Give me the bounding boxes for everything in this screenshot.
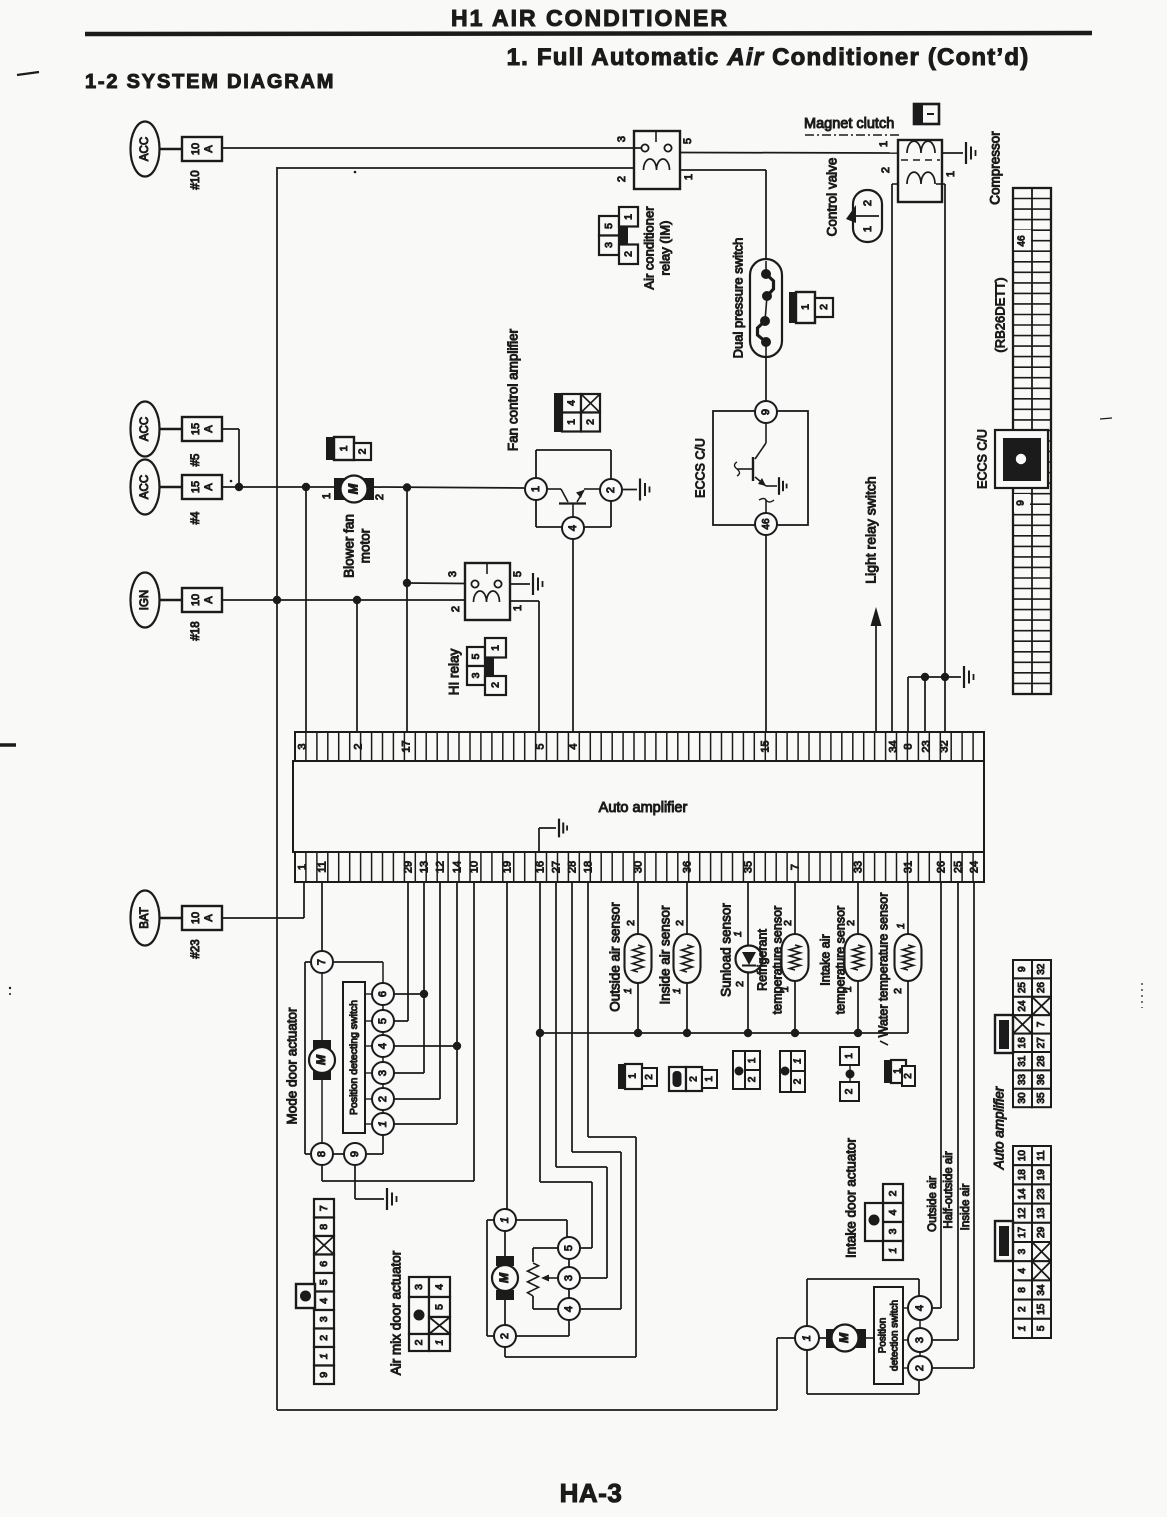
wire pin30 to outside air sensor — [637, 883, 639, 934]
svg-text:Inside air: Inside air — [960, 1184, 972, 1231]
svg-text:1: 1 — [887, 1248, 899, 1254]
svg-text:8: 8 — [318, 1224, 330, 1230]
resistor intake air temperature sensor — [845, 934, 872, 981]
connector sunload sensor — [733, 1051, 760, 1089]
svg-text:2: 2 — [793, 1078, 804, 1084]
svg-text:Auto amplifier: Auto amplifier — [599, 800, 688, 816]
svg-text:46: 46 — [761, 518, 772, 530]
motor mode door — [313, 1040, 331, 1050]
svg-text:HI relay: HI relay — [447, 648, 462, 695]
svg-text:11: 11 — [316, 861, 328, 872]
connector ECCS C/U pin grid — [1013, 188, 1051, 694]
wire AC relay coil to dual pressure switch — [680, 169, 766, 171]
label outside air sensor — [608, 902, 623, 1012]
svg-text:19: 19 — [501, 861, 513, 873]
svg-text:Dual pressure switch: Dual pressure switch — [730, 238, 745, 359]
label control valve — [825, 158, 840, 237]
motor intake door — [826, 1329, 836, 1348]
svg-text:46: 46 — [1017, 235, 1028, 247]
wire pin16 staircase — [539, 883, 541, 1182]
margin mark left lower — [9, 987, 11, 989]
svg-text:1: 1 — [878, 141, 890, 147]
svg-text:25: 25 — [1017, 982, 1028, 994]
svg-text:32: 32 — [1036, 963, 1047, 975]
svg-text:36: 36 — [1036, 1074, 1047, 1086]
svg-text:18: 18 — [1017, 1169, 1028, 1181]
svg-text:1: 1 — [622, 214, 634, 220]
motor air mix — [496, 1256, 514, 1266]
op-amp ECCS C/U box — [713, 401, 808, 535]
svg-text:2: 2 — [644, 1074, 655, 1080]
svg-text:28: 28 — [566, 861, 578, 873]
svg-text:1: 1 — [945, 171, 957, 177]
svg-text:2: 2 — [377, 1096, 389, 1102]
svg-text:temperature sensor: temperature sensor — [770, 906, 784, 1014]
svg-text:7: 7 — [789, 864, 801, 870]
wire control line to amp pin34 — [891, 184, 893, 733]
svg-text:5: 5 — [433, 1304, 445, 1310]
wire to amp pin32 — [944, 677, 946, 733]
svg-text:4: 4 — [433, 1284, 445, 1290]
svg-text:1. Full Automatic Air Conditio: 1. Full Automatic Air Conditioner (Cont’… — [507, 44, 1030, 71]
svg-text:2: 2 — [622, 251, 634, 257]
label dual pressure switch — [730, 238, 745, 359]
wire mode 9 to ground — [354, 1165, 356, 1199]
wire pin14 — [456, 883, 458, 1124]
svg-text:#23: #23 — [190, 939, 202, 958]
svg-text:1: 1 — [747, 1057, 758, 1063]
page title — [451, 5, 729, 31]
svg-text:Control valve: Control valve — [825, 158, 840, 237]
svg-text:10: 10 — [190, 912, 202, 924]
svg-text:motor: motor — [358, 528, 373, 563]
svg-text:2: 2 — [489, 682, 501, 688]
svg-text:2: 2 — [499, 1333, 511, 1339]
page number — [560, 1478, 623, 1508]
svg-text:1: 1 — [895, 923, 907, 929]
wire BAT to amp pin1 — [222, 917, 304, 919]
svg-text:2: 2 — [914, 1365, 926, 1371]
svg-text:1: 1 — [1017, 1326, 1028, 1332]
transistor Q1 ECCS — [755, 443, 766, 459]
svg-text:HA-3: HA-3 — [560, 1478, 623, 1508]
svg-text:#4: #4 — [190, 511, 202, 524]
svg-text:2: 2 — [450, 606, 462, 612]
svg-text:26: 26 — [1036, 982, 1047, 994]
svg-text:Light relay switch: Light relay switch — [863, 476, 879, 583]
svg-text:Half-outside air: Half-outside air — [943, 1151, 955, 1229]
svg-text:2: 2 — [584, 419, 596, 425]
title rule — [85, 33, 1092, 34]
svg-text:4: 4 — [567, 743, 579, 749]
wire pin27 staircase — [555, 883, 557, 1167]
svg-text:15: 15 — [190, 481, 202, 493]
motor blower fan — [321, 476, 386, 503]
wire pin13 — [423, 883, 425, 1073]
label mode door actuator — [285, 1007, 300, 1125]
svg-text:#18: #18 — [190, 621, 202, 640]
connector control valve — [846, 190, 882, 242]
svg-text:5: 5 — [603, 223, 615, 229]
label refrigerant temperature sensor — [755, 906, 784, 1014]
svg-text:3: 3 — [1017, 1248, 1028, 1254]
svg-text:2: 2 — [689, 1076, 700, 1082]
svg-text:4: 4 — [377, 1043, 389, 1049]
svg-text:Air mix door actuator: Air mix door actuator — [389, 1250, 404, 1375]
position detection switch intake — [874, 1287, 908, 1384]
svg-text:4: 4 — [563, 1306, 575, 1312]
svg-text:28: 28 — [1036, 1055, 1047, 1067]
relay HI — [447, 563, 524, 620]
wire to amp pin3 — [305, 487, 307, 733]
svg-text:33: 33 — [1017, 1074, 1028, 1086]
svg-text:1: 1 — [530, 486, 542, 492]
connector HI relay — [467, 638, 506, 695]
svg-text:2: 2 — [605, 487, 617, 493]
wire to hi relay contact — [407, 582, 465, 585]
svg-text:10: 10 — [1017, 1150, 1028, 1162]
svg-text:27: 27 — [550, 861, 562, 873]
svg-text:2: 2 — [625, 920, 637, 926]
svg-text:2: 2 — [880, 167, 892, 173]
svg-text:7: 7 — [318, 1205, 330, 1211]
label light relay switch — [863, 476, 879, 583]
resistor water temperature sensor — [895, 934, 922, 981]
svg-text:4: 4 — [887, 1209, 899, 1215]
wire sensor ground bus — [540, 1032, 908, 1034]
svg-text:14: 14 — [451, 861, 463, 873]
node fuse45 junction — [235, 483, 243, 491]
svg-text:35: 35 — [742, 861, 754, 873]
wire pin26 to intake c4 — [940, 883, 942, 1308]
wire compressor line down — [944, 184, 946, 677]
svg-text:1: 1 — [622, 988, 634, 994]
svg-text:6: 6 — [318, 1261, 330, 1267]
svg-text:2: 2 — [862, 200, 874, 206]
svg-text:3: 3 — [603, 242, 615, 248]
wire pin11 to mode actuator — [321, 883, 323, 951]
auto amplifier bottom pin row — [295, 852, 984, 882]
svg-text:1: 1 — [377, 1121, 389, 1127]
diode sunload sensor — [736, 946, 763, 973]
ground fan amp — [640, 479, 650, 501]
svg-text:IGN: IGN — [139, 590, 151, 610]
svg-text:5: 5 — [470, 653, 482, 659]
svg-text:26: 26 — [935, 861, 947, 873]
svg-text:1: 1 — [499, 1217, 511, 1223]
wire light relay switch — [875, 622, 877, 733]
node sensor bus tap — [536, 1029, 544, 1037]
svg-text:ACC: ACC — [139, 417, 151, 441]
svg-text:2: 2 — [892, 988, 904, 994]
wire pin29 — [407, 883, 409, 1021]
label ECCS C/U — [693, 438, 707, 498]
section heading — [85, 71, 335, 93]
svg-text:Compressor: Compressor — [988, 131, 1003, 205]
wire pin36 to inside air sensor — [686, 883, 688, 934]
svg-text:3: 3 — [914, 1337, 926, 1343]
wire AC relay coil to left riser — [277, 167, 634, 169]
wire bottom return — [277, 1409, 777, 1411]
connector blower — [326, 437, 371, 460]
svg-text:13: 13 — [1036, 1207, 1047, 1219]
svg-text:3: 3 — [563, 1275, 575, 1281]
svg-text:34: 34 — [1036, 1284, 1047, 1296]
svg-text:H1 AIR CONDITIONER: H1 AIR CONDITIONER — [451, 5, 729, 31]
svg-text:2: 2 — [734, 981, 746, 987]
svg-text:24: 24 — [968, 861, 980, 873]
svg-text:16: 16 — [1017, 1037, 1028, 1049]
svg-text:#5: #5 — [190, 454, 202, 467]
svg-text:1: 1 — [338, 445, 350, 451]
svg-text:A: A — [203, 483, 215, 491]
resistor air mix potentiometer — [528, 1263, 539, 1296]
node hi relay branch — [403, 579, 411, 587]
svg-text:7: 7 — [1036, 1021, 1047, 1027]
svg-text:3: 3 — [887, 1228, 899, 1234]
relay air conditioner (IM) — [616, 131, 695, 189]
svg-text:M: M — [314, 1054, 328, 1065]
wire hi relay coil to amp pin5 — [510, 600, 539, 602]
svg-text:17: 17 — [1017, 1226, 1028, 1238]
svg-text:27: 27 — [1036, 1037, 1047, 1049]
margin mark left middle — [0, 743, 16, 747]
connector AC relay — [599, 207, 638, 264]
svg-text:5: 5 — [512, 571, 524, 577]
svg-text:1: 1 — [732, 931, 744, 937]
label ECCS C/U right — [975, 429, 989, 489]
node blower junction A — [302, 483, 310, 491]
svg-text:2: 2 — [616, 176, 628, 182]
wire pin18 staircase — [587, 883, 589, 1137]
magnet clutch coils — [878, 140, 957, 202]
svg-text:ECCS C/U: ECCS C/U — [693, 438, 707, 498]
svg-text:1: 1 — [296, 864, 308, 870]
svg-text:Magnet clutch: Magnet clutch — [804, 116, 894, 132]
svg-text:ACC: ACC — [139, 475, 151, 499]
svg-text:temperature sensor: temperature sensor — [833, 906, 847, 1014]
label HI relay — [447, 648, 462, 695]
svg-text:3: 3 — [413, 1284, 425, 1290]
svg-text:1: 1 — [512, 605, 524, 611]
svg-text:3: 3 — [616, 136, 628, 142]
label outside air — [927, 1176, 939, 1232]
svg-text:ECCS C/U: ECCS C/U — [975, 429, 989, 489]
svg-text:1: 1 — [683, 174, 695, 180]
label compressor — [988, 131, 1003, 205]
svg-text:2: 2 — [844, 1088, 855, 1094]
svg-text:29: 29 — [402, 861, 414, 873]
svg-text:Outside air: Outside air — [927, 1176, 939, 1232]
svg-text:A: A — [203, 914, 215, 922]
svg-text:10: 10 — [190, 143, 202, 155]
svg-text:Blower fan: Blower fan — [342, 514, 357, 578]
svg-text:5: 5 — [377, 1018, 389, 1024]
svg-text:31: 31 — [1017, 1055, 1028, 1067]
ground right lower — [964, 666, 974, 688]
svg-text:3: 3 — [470, 672, 482, 678]
svg-text:9: 9 — [318, 1372, 330, 1378]
connector outside air sensor — [618, 1064, 657, 1089]
svg-text:M: M — [497, 1272, 511, 1283]
dual pressure switch — [750, 259, 782, 357]
wire to amp pin17 — [406, 487, 408, 733]
intake door actuator — [795, 1279, 932, 1394]
svg-text:18: 18 — [582, 861, 594, 873]
svg-text:19: 19 — [1036, 1169, 1047, 1181]
svg-text:5: 5 — [534, 743, 546, 749]
subtitle — [507, 44, 1030, 71]
svg-text:Position detecting switch: Position detecting switch — [348, 1000, 360, 1115]
transistor Q2 fan amp — [547, 488, 561, 490]
wire pin25 to intake c3 — [957, 883, 959, 1340]
svg-text:1: 1 — [321, 493, 333, 499]
wire fan amp pin2 to ground — [622, 489, 637, 491]
svg-text:Refrigerant: Refrigerant — [755, 929, 769, 991]
svg-text:5: 5 — [682, 138, 694, 144]
connector auto amplifier grid B — [995, 1146, 1051, 1338]
svg-text:15: 15 — [759, 740, 771, 752]
svg-text:Intake door actuator: Intake door actuator — [844, 1137, 859, 1258]
fuse IGN 10A #18 — [131, 573, 223, 641]
connector intake door — [865, 1184, 903, 1260]
svg-text:Inside air sensor: Inside air sensor — [658, 905, 673, 1005]
svg-text:2: 2 — [356, 448, 368, 454]
connector inside air sensor — [669, 1067, 717, 1091]
svg-text:Sunload sensor: Sunload sensor — [719, 903, 734, 997]
label RB26DETT — [992, 277, 1007, 352]
svg-text:2: 2 — [318, 1335, 330, 1341]
svg-text:#10: #10 — [190, 170, 202, 189]
label magnet clutch — [804, 116, 894, 132]
label intake door actuator — [844, 1137, 859, 1258]
label intake air temperature sensor — [818, 906, 847, 1014]
svg-text:1: 1 — [671, 988, 683, 994]
svg-text:Intake air: Intake air — [818, 934, 832, 985]
svg-text:3: 3 — [318, 1316, 330, 1322]
svg-text:3: 3 — [447, 571, 459, 577]
svg-text:Water temperature sensor: Water temperature sensor — [876, 893, 890, 1038]
wire pin12 — [439, 883, 441, 1099]
stray dot — [354, 171, 357, 174]
svg-text:15: 15 — [1036, 1303, 1047, 1315]
wire left riser (long vertical) — [276, 167, 278, 1410]
fuse ACC 15A #4 — [131, 460, 223, 525]
label half-outside air — [943, 1151, 955, 1229]
svg-text:15: 15 — [190, 423, 202, 435]
svg-text:1: 1 — [862, 226, 874, 232]
svg-text:6: 6 — [377, 991, 389, 997]
connector fan amp — [554, 393, 600, 432]
svg-text:2: 2 — [352, 743, 364, 749]
svg-text:14: 14 — [1017, 1188, 1028, 1200]
svg-text:BAT: BAT — [139, 907, 151, 929]
svg-text:2: 2 — [903, 1073, 914, 1079]
mode door actuator — [305, 951, 394, 1165]
svg-text:12: 12 — [434, 861, 446, 873]
svg-text:relay (IM): relay (IM) — [657, 221, 672, 276]
svg-text:1: 1 — [801, 1335, 813, 1341]
wire blower feed — [221, 486, 336, 488]
svg-text:1: 1 — [793, 1058, 804, 1064]
svg-text:30: 30 — [1017, 1092, 1028, 1104]
connector auto amplifier grid A — [995, 960, 1051, 1107]
label sunload sensor — [719, 903, 734, 997]
label water temperature sensor — [876, 893, 890, 1038]
svg-text:23: 23 — [920, 740, 932, 752]
wire bottom return riser to intake actuator — [776, 1338, 778, 1410]
wire pin33 to intake air temp sensor — [857, 883, 859, 934]
label air conditioner relay — [641, 206, 672, 290]
svg-text:Auto amplifier: Auto amplifier — [992, 1086, 1007, 1170]
svg-text:30: 30 — [632, 861, 644, 873]
wire AC relay pin5 to magnet clutch — [681, 152, 898, 155]
auto amplifier body — [293, 761, 984, 852]
connector ECCS black block — [995, 430, 1048, 488]
svg-text:9: 9 — [1016, 500, 1027, 506]
svg-text:33: 33 — [852, 861, 864, 873]
op-amp fan control amplifier — [525, 450, 622, 539]
svg-text:1: 1 — [844, 1053, 855, 1059]
svg-text:8: 8 — [316, 1151, 328, 1157]
svg-text:4: 4 — [914, 1305, 926, 1311]
label inside air — [960, 1184, 972, 1231]
svg-text:35: 35 — [1036, 1092, 1047, 1104]
svg-text:1: 1 — [704, 1076, 715, 1082]
ground mode door — [387, 1188, 397, 1210]
svg-text:Outside air sensor: Outside air sensor — [608, 902, 623, 1012]
svg-text:4: 4 — [1017, 1268, 1028, 1274]
svg-text:M: M — [837, 1332, 851, 1343]
label pin 46 — [1014, 230, 1031, 250]
svg-text:9: 9 — [1017, 966, 1028, 972]
svg-text:13: 13 — [418, 861, 430, 873]
svg-text:31: 31 — [902, 861, 914, 873]
node blower junction B — [403, 483, 411, 491]
svg-text:2: 2 — [674, 920, 686, 926]
svg-text:2: 2 — [747, 1076, 758, 1082]
wire to amp pin2 — [356, 600, 358, 733]
wire fan amp pin4 to amp pin4 — [572, 539, 574, 733]
label blower fan motor — [342, 514, 373, 578]
svg-text:A: A — [203, 425, 215, 433]
svg-text:5: 5 — [1036, 1325, 1047, 1331]
svg-text:25: 25 — [952, 861, 964, 873]
ground compressor top — [966, 142, 976, 164]
wire pin7 to refrigerant temp sensor — [794, 883, 796, 934]
svg-text:4: 4 — [318, 1298, 330, 1304]
node IGN riser junction — [273, 596, 281, 604]
svg-text:2: 2 — [374, 494, 386, 500]
fuse BAT 10A #23 — [131, 891, 223, 959]
connector intake air temp sensor — [840, 1047, 859, 1101]
wire fuse5 branch — [223, 428, 239, 430]
wire pin19 — [506, 883, 508, 1209]
fuse ACC 10A #10 — [131, 122, 223, 190]
svg-text:5: 5 — [563, 1245, 575, 1251]
svg-text:1: 1 — [489, 645, 501, 651]
svg-text:2: 2 — [413, 1339, 425, 1345]
label pin 9 — [1014, 494, 1030, 512]
connector air mix block — [409, 1277, 450, 1351]
connector air mix door actuator strip — [296, 1199, 334, 1384]
svg-text:1-2 SYSTEM DIAGRAM: 1-2 SYSTEM DIAGRAM — [85, 71, 335, 93]
wire magnet clutch to ground — [942, 152, 963, 154]
fuse ACC 15A #5 — [131, 402, 223, 467]
svg-text:2: 2 — [1017, 1306, 1028, 1312]
svg-text:detection switch: detection switch — [890, 1300, 901, 1371]
svg-text:2: 2 — [818, 304, 830, 310]
